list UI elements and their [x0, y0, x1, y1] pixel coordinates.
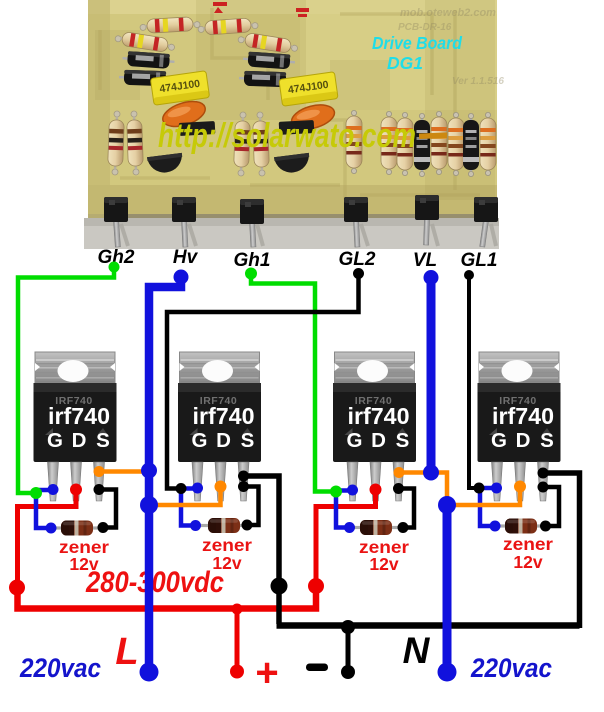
wire Q3 source to zener ZD3 (black)	[399, 489, 415, 528]
svg-text:N: N	[403, 630, 431, 671]
node zener ZD2 right (black)	[242, 520, 253, 531]
wire Q2 source down to black bus	[244, 476, 280, 624]
node zener ZD3 right (black)	[398, 522, 409, 533]
wire Q3 source to N node to Q4 drain (orange)	[399, 473, 520, 506]
wire GL1 to Q4 gate (black)	[469, 273, 477, 488]
header pin 2 (Hv)	[172, 197, 196, 247]
node Q1 gate blue dot	[48, 484, 59, 495]
terminal N cap (blue)	[438, 663, 457, 682]
wire Q4 source to zener ZD4 (black)	[543, 487, 559, 526]
node red bus right (big red)	[308, 578, 324, 594]
node Gh1 (green)	[245, 268, 257, 280]
svg-text:zener: zener	[202, 535, 252, 555]
node N-D4 junction (big blue)	[438, 496, 456, 514]
small black part U-a	[179, 121, 216, 136]
node Q4 source black dot lower	[538, 482, 549, 493]
svg-text:DG1: DG1	[387, 53, 423, 73]
svg-text:12v: 12v	[369, 554, 398, 574]
Drive Board DG1 cyan text	[372, 33, 462, 73]
wire Q2 source to zener ZD2 (black)	[244, 487, 259, 526]
diode D-b (left group)	[119, 70, 171, 87]
header pin 5 (VL)	[415, 195, 439, 245]
faint mirrored silkscreen text	[398, 7, 504, 87]
resistor R-g (vertical, mid group)	[233, 112, 250, 176]
zener ZD3 12v	[350, 520, 403, 535]
svg-text:Ver 1.1.516: Ver 1.1.516	[452, 76, 504, 87]
black AC bus (bottom)	[277, 622, 580, 629]
wire Q1 source to Hv node (orange)	[99, 469, 146, 474]
ceramic capacitor C-d (orange, right)	[289, 101, 337, 134]
wire Q1 source to zener ZD1 (black)	[99, 490, 116, 528]
svg-text:http://solarwato.com: http://solarwato.com	[158, 117, 416, 155]
PCB drive board photo	[84, 0, 499, 249]
node Q1 source orange dot	[94, 466, 105, 477]
transistor Q-a (TO-92, left)	[147, 153, 184, 175]
resistor R-h (vertical, mid group)	[252, 112, 269, 176]
node Gh2 (green)	[109, 262, 120, 273]
node Q3 source black dot	[393, 483, 404, 494]
terminal plus cap (red)	[230, 665, 244, 679]
zener ZD1 12v	[51, 521, 104, 536]
label zener 12v (ZD1)	[59, 537, 109, 574]
node Q2 drain orange dot	[215, 481, 227, 493]
resistor R-a (top left horizontal)	[140, 16, 201, 33]
node plus tap on bus (red)	[232, 604, 243, 615]
film capacitor C-b 474J100 (right)	[279, 72, 338, 107]
wire GL2 to Q2 gate (black)	[167, 272, 359, 489]
right row: resistor R2r	[381, 111, 397, 174]
pin shadows on gray band	[121, 224, 496, 246]
right row: resistor R6r	[480, 112, 496, 175]
node Q2 source black dot lower	[238, 481, 249, 492]
node GL1 (black)	[464, 270, 474, 280]
wire N thick blue line	[443, 505, 452, 670]
red mark top center	[213, 2, 309, 17]
wire gate Gh1 to Q3 (green)	[251, 272, 333, 492]
node Q1 source black dot	[94, 484, 105, 495]
node zener ZD3 left (blue)	[344, 522, 355, 533]
zener ZD4 12v	[495, 519, 548, 534]
node VL-S3 junction (big blue)	[423, 465, 439, 481]
node GL2 (black)	[353, 268, 364, 279]
transistor Q3 irf740	[333, 352, 416, 501]
label zener 12v (ZD2)	[202, 535, 252, 573]
node zener ZD1 right (black)	[98, 522, 109, 533]
node Q1 gate green dot	[30, 487, 42, 499]
svg-text:Drive Board: Drive Board	[372, 33, 462, 53]
right row: resistor R4r	[431, 111, 447, 174]
node zener ZD2 left (blue)	[190, 520, 201, 531]
node Q4 gate blue dot	[491, 483, 502, 494]
watermark http://solarwato.com	[158, 117, 447, 155]
svg-text:280-300vdc: 280-300vdc	[85, 566, 224, 599]
resistor R-e (vertical, left group)	[107, 111, 124, 175]
right row: resistor R3r	[397, 112, 413, 175]
wire Hv thick blue line	[149, 274, 181, 670]
wire VL thick blue line	[427, 275, 436, 473]
node Q3 source orange dot	[394, 467, 405, 478]
transistor Q1 irf740	[34, 352, 117, 501]
node Hv-S1 junction (big blue)	[141, 463, 157, 479]
node Q1 drain red dot	[70, 484, 82, 496]
wire Q1 drain to red bus	[18, 490, 77, 588]
right row: diode D2r	[463, 113, 479, 176]
node minus tap on bus (black)	[341, 620, 355, 634]
node Q4 source black dot upper	[538, 468, 549, 479]
film capacitor C-a 474J100 (left)	[150, 71, 209, 106]
right row: resistor R1r	[346, 110, 362, 173]
header pin 4 (GL2)	[344, 197, 368, 247]
label zener 12v (ZD3)	[359, 537, 409, 574]
wire gate Gh2 to Q1 (green)	[18, 266, 114, 493]
header pin 3 (Gh1)	[240, 199, 264, 247]
node zener ZD4 left (blue)	[490, 521, 501, 532]
diode D-c (right group)	[243, 51, 296, 70]
wire Hv node to Q2 drain (orange)	[151, 488, 221, 505]
transistor Q2 irf740	[178, 352, 261, 501]
node Q4 gate black dot	[474, 483, 485, 494]
terminal L cap (blue)	[140, 663, 159, 682]
svg-text:GL2: GL2	[339, 249, 376, 270]
node Q3 drain red dot	[370, 484, 382, 496]
svg-text:PCB-DR-16: PCB-DR-16	[398, 22, 452, 33]
node Q2 gate blue dot	[192, 483, 203, 494]
resistor R-b (top right horizontal)	[198, 17, 259, 35]
node Q2 source black dot upper	[238, 471, 249, 482]
diode D-d (right group)	[239, 71, 291, 88]
red DC bus 280-300vdc	[18, 583, 317, 609]
svg-text:220vac: 220vac	[19, 653, 101, 683]
svg-text:220vac: 220vac	[470, 653, 552, 683]
svg-text:mob.oteweb2.com: mob.oteweb2.com	[400, 7, 496, 19]
wire zener ZD1 gate drop (blue)	[36, 490, 52, 528]
pcb ghost traces	[100, 8, 480, 200]
node Q3 gate green dot	[330, 486, 342, 498]
zener ZD2 12v	[198, 518, 251, 533]
node Q2 gate black dot	[176, 483, 187, 494]
right row: resistor R5r	[448, 112, 464, 175]
transistor Q4 irf740	[478, 352, 561, 501]
wire zener ZD2 gate drop (blue)	[181, 489, 196, 526]
node Hv terminal (blue)	[174, 270, 189, 285]
wire black bus riser to Q4 source	[542, 473, 580, 628]
node VL terminal (blue)	[424, 270, 439, 285]
wire plus terminal (red)	[235, 608, 240, 669]
wire minus terminal (black)	[346, 624, 351, 670]
wire zener ZD3 gate drop (blue)	[336, 491, 351, 528]
pcb dark blotches	[95, 0, 495, 200]
svg-text:VL: VL	[413, 250, 437, 271]
svg-text:GL1: GL1	[461, 250, 498, 271]
resistor R-c (angled, left group)	[114, 30, 175, 53]
right row: diode D1r	[414, 113, 430, 176]
node Q3 gate blue dot	[347, 485, 358, 496]
svg-text:zener: zener	[503, 534, 553, 554]
label minus	[306, 664, 328, 672]
node zener ZD4 right (black)	[540, 521, 551, 532]
terminal minus cap (black)	[341, 665, 355, 679]
svg-text:12v: 12v	[513, 552, 542, 572]
node Q4 drain orange dot	[514, 481, 526, 493]
node black bend (big black)	[271, 578, 288, 595]
label zener 12v (ZD4)	[503, 534, 553, 572]
node zener ZD1 left (blue)	[46, 523, 57, 534]
wire zener ZD4 gate drop (blue)	[480, 488, 495, 526]
ceramic capacitor C-c (orange, left)	[160, 97, 209, 132]
header pin 1 (Gh2)	[104, 197, 128, 247]
resistor R-f (vertical, left group)	[126, 111, 143, 175]
node Hv-D2 junction (big blue)	[140, 496, 158, 514]
resistor R-d (angled, right group)	[237, 31, 298, 54]
svg-text:L: L	[115, 631, 138, 673]
diode D-a (left group)	[122, 51, 175, 70]
svg-text:+: +	[255, 651, 278, 695]
small black part U-b	[279, 120, 315, 135]
svg-text:Hv: Hv	[173, 247, 199, 268]
wire Q3 drain to red bus	[316, 490, 376, 585]
header pin 6 (GL1)	[474, 197, 498, 247]
transistor Q-b (TO-92, right)	[274, 153, 311, 175]
node red bus left (big red)	[9, 580, 25, 596]
